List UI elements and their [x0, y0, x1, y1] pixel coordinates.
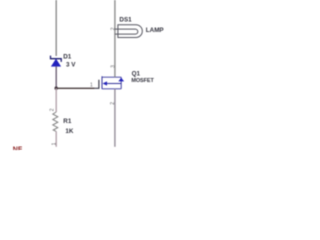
body diode branch vertical — [120, 77, 122, 89]
lamp envelope — [118, 25, 142, 38]
svg-text:MOSFET: MOSFET — [131, 78, 154, 84]
wire top-left vertical — [55, 0, 57, 56]
substrate arrow — [103, 81, 108, 85]
svg-text:DS1: DS1 — [119, 17, 132, 24]
wire junction to resistor — [55, 88, 57, 112]
svg-text:2: 2 — [49, 108, 55, 111]
gate lead and gate bar — [95, 80, 99, 89]
resistor R1 — [53, 112, 58, 131]
transistor Q1 MOSFET — [95, 76, 125, 89]
diode D1 (zener) — [51, 56, 62, 67]
svg-text:2: 2 — [110, 102, 116, 105]
body stub horizontal with arrow — [104, 83, 121, 85]
svg-text:1K: 1K — [65, 128, 74, 135]
svg-text:NF: NF — [13, 146, 23, 150]
wire gate horizontal — [56, 87, 94, 89]
source stub horizontal — [102, 88, 121, 90]
svg-text:1: 1 — [51, 142, 57, 145]
svg-text:LAMP: LAMP — [146, 27, 164, 34]
wire source vertical — [114, 89, 116, 147]
channel bar — [101, 76, 103, 89]
svg-text:Q1: Q1 — [132, 70, 141, 77]
svg-text:R1: R1 — [63, 118, 72, 125]
svg-text:2: 2 — [110, 27, 116, 30]
svg-text:1: 1 — [90, 82, 93, 88]
wire diode anode to junction — [55, 66, 57, 88]
drain stub horizontal — [102, 76, 121, 78]
svg-text:3 V: 3 V — [66, 62, 76, 69]
wire lamp to drain vertical — [114, 0, 116, 77]
body diode triangle — [118, 78, 124, 82]
wire resistor to bottom — [55, 131, 57, 146]
node junction dot — [55, 87, 58, 90]
svg-text:D1: D1 — [63, 54, 72, 61]
lamp filament loop — [115, 29, 138, 34]
lamp DS1 — [115, 25, 142, 38]
